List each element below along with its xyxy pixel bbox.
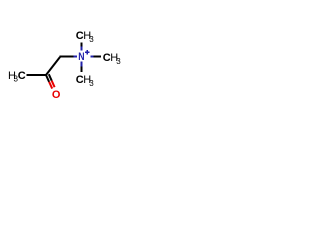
svg-text:N: N — [78, 51, 84, 63]
svg-text:3: 3 — [116, 57, 121, 66]
svg-text:3: 3 — [89, 35, 94, 44]
svg-text:O: O — [52, 89, 61, 101]
svg-text:C: C — [18, 70, 26, 82]
svg-text:3: 3 — [89, 79, 94, 88]
